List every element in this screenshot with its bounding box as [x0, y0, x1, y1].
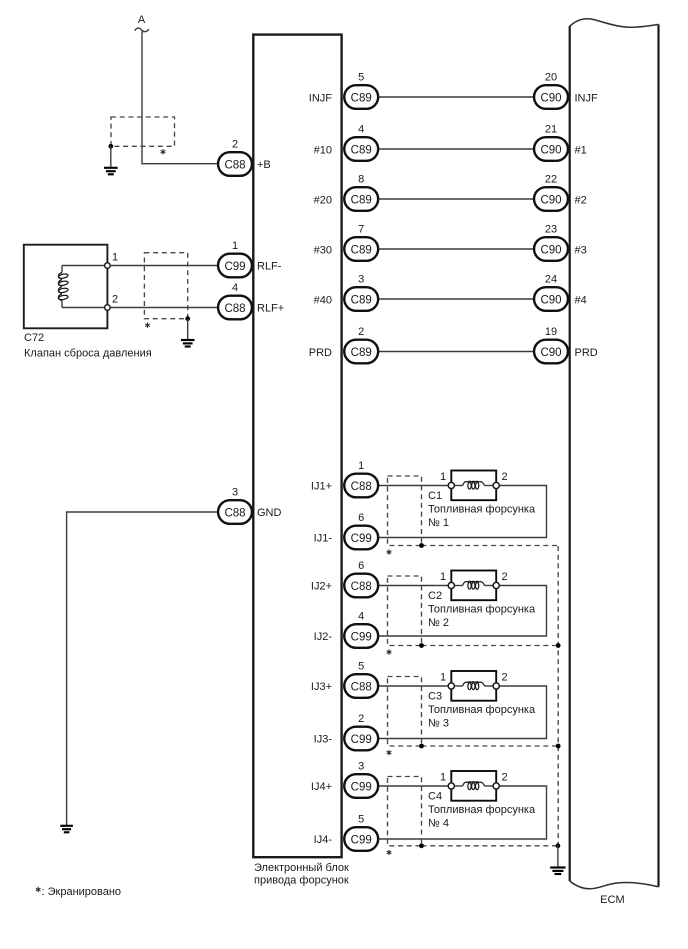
svg-text:23: 23 — [545, 224, 557, 236]
svg-text:C99: C99 — [351, 835, 372, 847]
svg-text:#4: #4 — [575, 294, 587, 306]
svg-text:1: 1 — [440, 672, 446, 684]
svg-text:C99: C99 — [351, 734, 372, 746]
svg-text:C88: C88 — [351, 481, 372, 493]
svg-text:RLF+: RLF+ — [257, 302, 284, 314]
svg-text:2: 2 — [501, 471, 507, 483]
svg-text:5: 5 — [358, 661, 364, 673]
svg-text:1: 1 — [440, 471, 446, 483]
svg-text:C90: C90 — [540, 245, 561, 257]
svg-text:RLF-: RLF- — [257, 260, 282, 272]
svg-text:№ 3: № 3 — [428, 717, 449, 729]
svg-text:1: 1 — [440, 772, 446, 784]
svg-text:IJ3-: IJ3- — [314, 734, 333, 746]
svg-text:1: 1 — [232, 240, 238, 252]
svg-text:2: 2 — [501, 571, 507, 583]
svg-text:Топливная форсунка: Топливная форсунка — [428, 503, 536, 515]
svg-text:C90: C90 — [540, 195, 561, 207]
svg-text:1: 1 — [358, 460, 364, 472]
svg-text:PRD: PRD — [575, 347, 598, 359]
svg-text:24: 24 — [545, 274, 557, 286]
svg-text:IJ1-: IJ1- — [314, 533, 333, 545]
svg-text:6: 6 — [358, 560, 364, 572]
svg-text:22: 22 — [545, 174, 557, 186]
svg-text:3: 3 — [232, 487, 238, 499]
svg-text:#1: #1 — [575, 144, 587, 156]
svg-text:C89: C89 — [351, 195, 372, 207]
svg-text:#20: #20 — [314, 194, 332, 206]
svg-text:ECM: ECM — [600, 894, 624, 906]
svg-text:C4: C4 — [428, 790, 442, 802]
svg-text:C90: C90 — [540, 93, 561, 105]
svg-text:привода форсунок: привода форсунок — [254, 875, 349, 887]
svg-text:5: 5 — [358, 814, 364, 826]
svg-text:5: 5 — [358, 72, 364, 84]
svg-text:GND: GND — [257, 507, 282, 519]
svg-text:4: 4 — [232, 282, 238, 294]
svg-text:2: 2 — [501, 772, 507, 784]
svg-text:C89: C89 — [351, 347, 372, 359]
svg-text:C90: C90 — [540, 295, 561, 307]
svg-text:IJ1+: IJ1+ — [311, 481, 332, 493]
svg-text:: Экранировано: : Экранировано — [42, 886, 122, 898]
svg-text:C89: C89 — [351, 245, 372, 257]
svg-text:C88: C88 — [351, 581, 372, 593]
svg-text:INJF: INJF — [309, 92, 333, 104]
svg-text:4: 4 — [358, 124, 364, 136]
svg-text:IJ3+: IJ3+ — [311, 681, 332, 693]
svg-text:1: 1 — [112, 252, 118, 264]
svg-text:1: 1 — [440, 571, 446, 583]
svg-text:21: 21 — [545, 124, 557, 136]
svg-text:IJ2-: IJ2- — [314, 631, 333, 643]
svg-text:3: 3 — [358, 274, 364, 286]
svg-text:C89: C89 — [351, 145, 372, 157]
svg-text:C88: C88 — [224, 160, 245, 172]
svg-text:C90: C90 — [540, 347, 561, 359]
svg-text:7: 7 — [358, 224, 364, 236]
svg-text:C1: C1 — [428, 490, 442, 502]
svg-text:№ 1: № 1 — [428, 517, 449, 529]
svg-text:INJF: INJF — [575, 92, 599, 104]
svg-text:#10: #10 — [314, 144, 332, 156]
svg-text:C99: C99 — [224, 261, 245, 273]
svg-text:C89: C89 — [351, 295, 372, 307]
svg-text:2: 2 — [358, 326, 364, 338]
svg-text:+B: +B — [257, 159, 271, 171]
svg-text:Топливная форсунка: Топливная форсунка — [428, 804, 536, 816]
svg-text:IJ2+: IJ2+ — [311, 581, 332, 593]
svg-text:C89: C89 — [351, 93, 372, 105]
svg-text:C99: C99 — [351, 533, 372, 545]
svg-text:IJ4-: IJ4- — [314, 834, 333, 846]
svg-text:2: 2 — [112, 294, 118, 306]
svg-text:Клапан сброса давления: Клапан сброса давления — [24, 348, 152, 360]
svg-text:Электронный блок: Электронный блок — [254, 862, 349, 874]
svg-text:6: 6 — [358, 512, 364, 524]
svg-text:2: 2 — [501, 672, 507, 684]
svg-text:№ 2: № 2 — [428, 617, 449, 629]
svg-text:#40: #40 — [314, 294, 332, 306]
svg-text:C99: C99 — [351, 782, 372, 794]
svg-text:#2: #2 — [575, 194, 587, 206]
svg-text:2: 2 — [358, 713, 364, 725]
svg-text:№ 4: № 4 — [428, 817, 449, 829]
svg-text:3: 3 — [358, 761, 364, 773]
svg-text:C99: C99 — [351, 632, 372, 644]
svg-text:C90: C90 — [540, 145, 561, 157]
svg-text:#30: #30 — [314, 244, 332, 256]
svg-text:C88: C88 — [351, 682, 372, 694]
svg-text:A: A — [138, 14, 146, 26]
svg-text:20: 20 — [545, 72, 557, 84]
svg-text:IJ4+: IJ4+ — [311, 781, 332, 793]
svg-text:C88: C88 — [224, 508, 245, 520]
svg-text:Топливная форсунка: Топливная форсунка — [428, 603, 536, 615]
svg-text:19: 19 — [545, 326, 557, 338]
svg-text:8: 8 — [358, 174, 364, 186]
svg-text:C72: C72 — [24, 332, 44, 344]
svg-text:C2: C2 — [428, 590, 442, 602]
svg-text:#3: #3 — [575, 244, 587, 256]
svg-text:4: 4 — [358, 611, 364, 623]
svg-text:C3: C3 — [428, 690, 442, 702]
svg-text:PRD: PRD — [309, 347, 332, 359]
svg-text:2: 2 — [232, 139, 238, 151]
svg-text:C88: C88 — [224, 303, 245, 315]
svg-text:Топливная форсунка: Топливная форсунка — [428, 704, 536, 716]
